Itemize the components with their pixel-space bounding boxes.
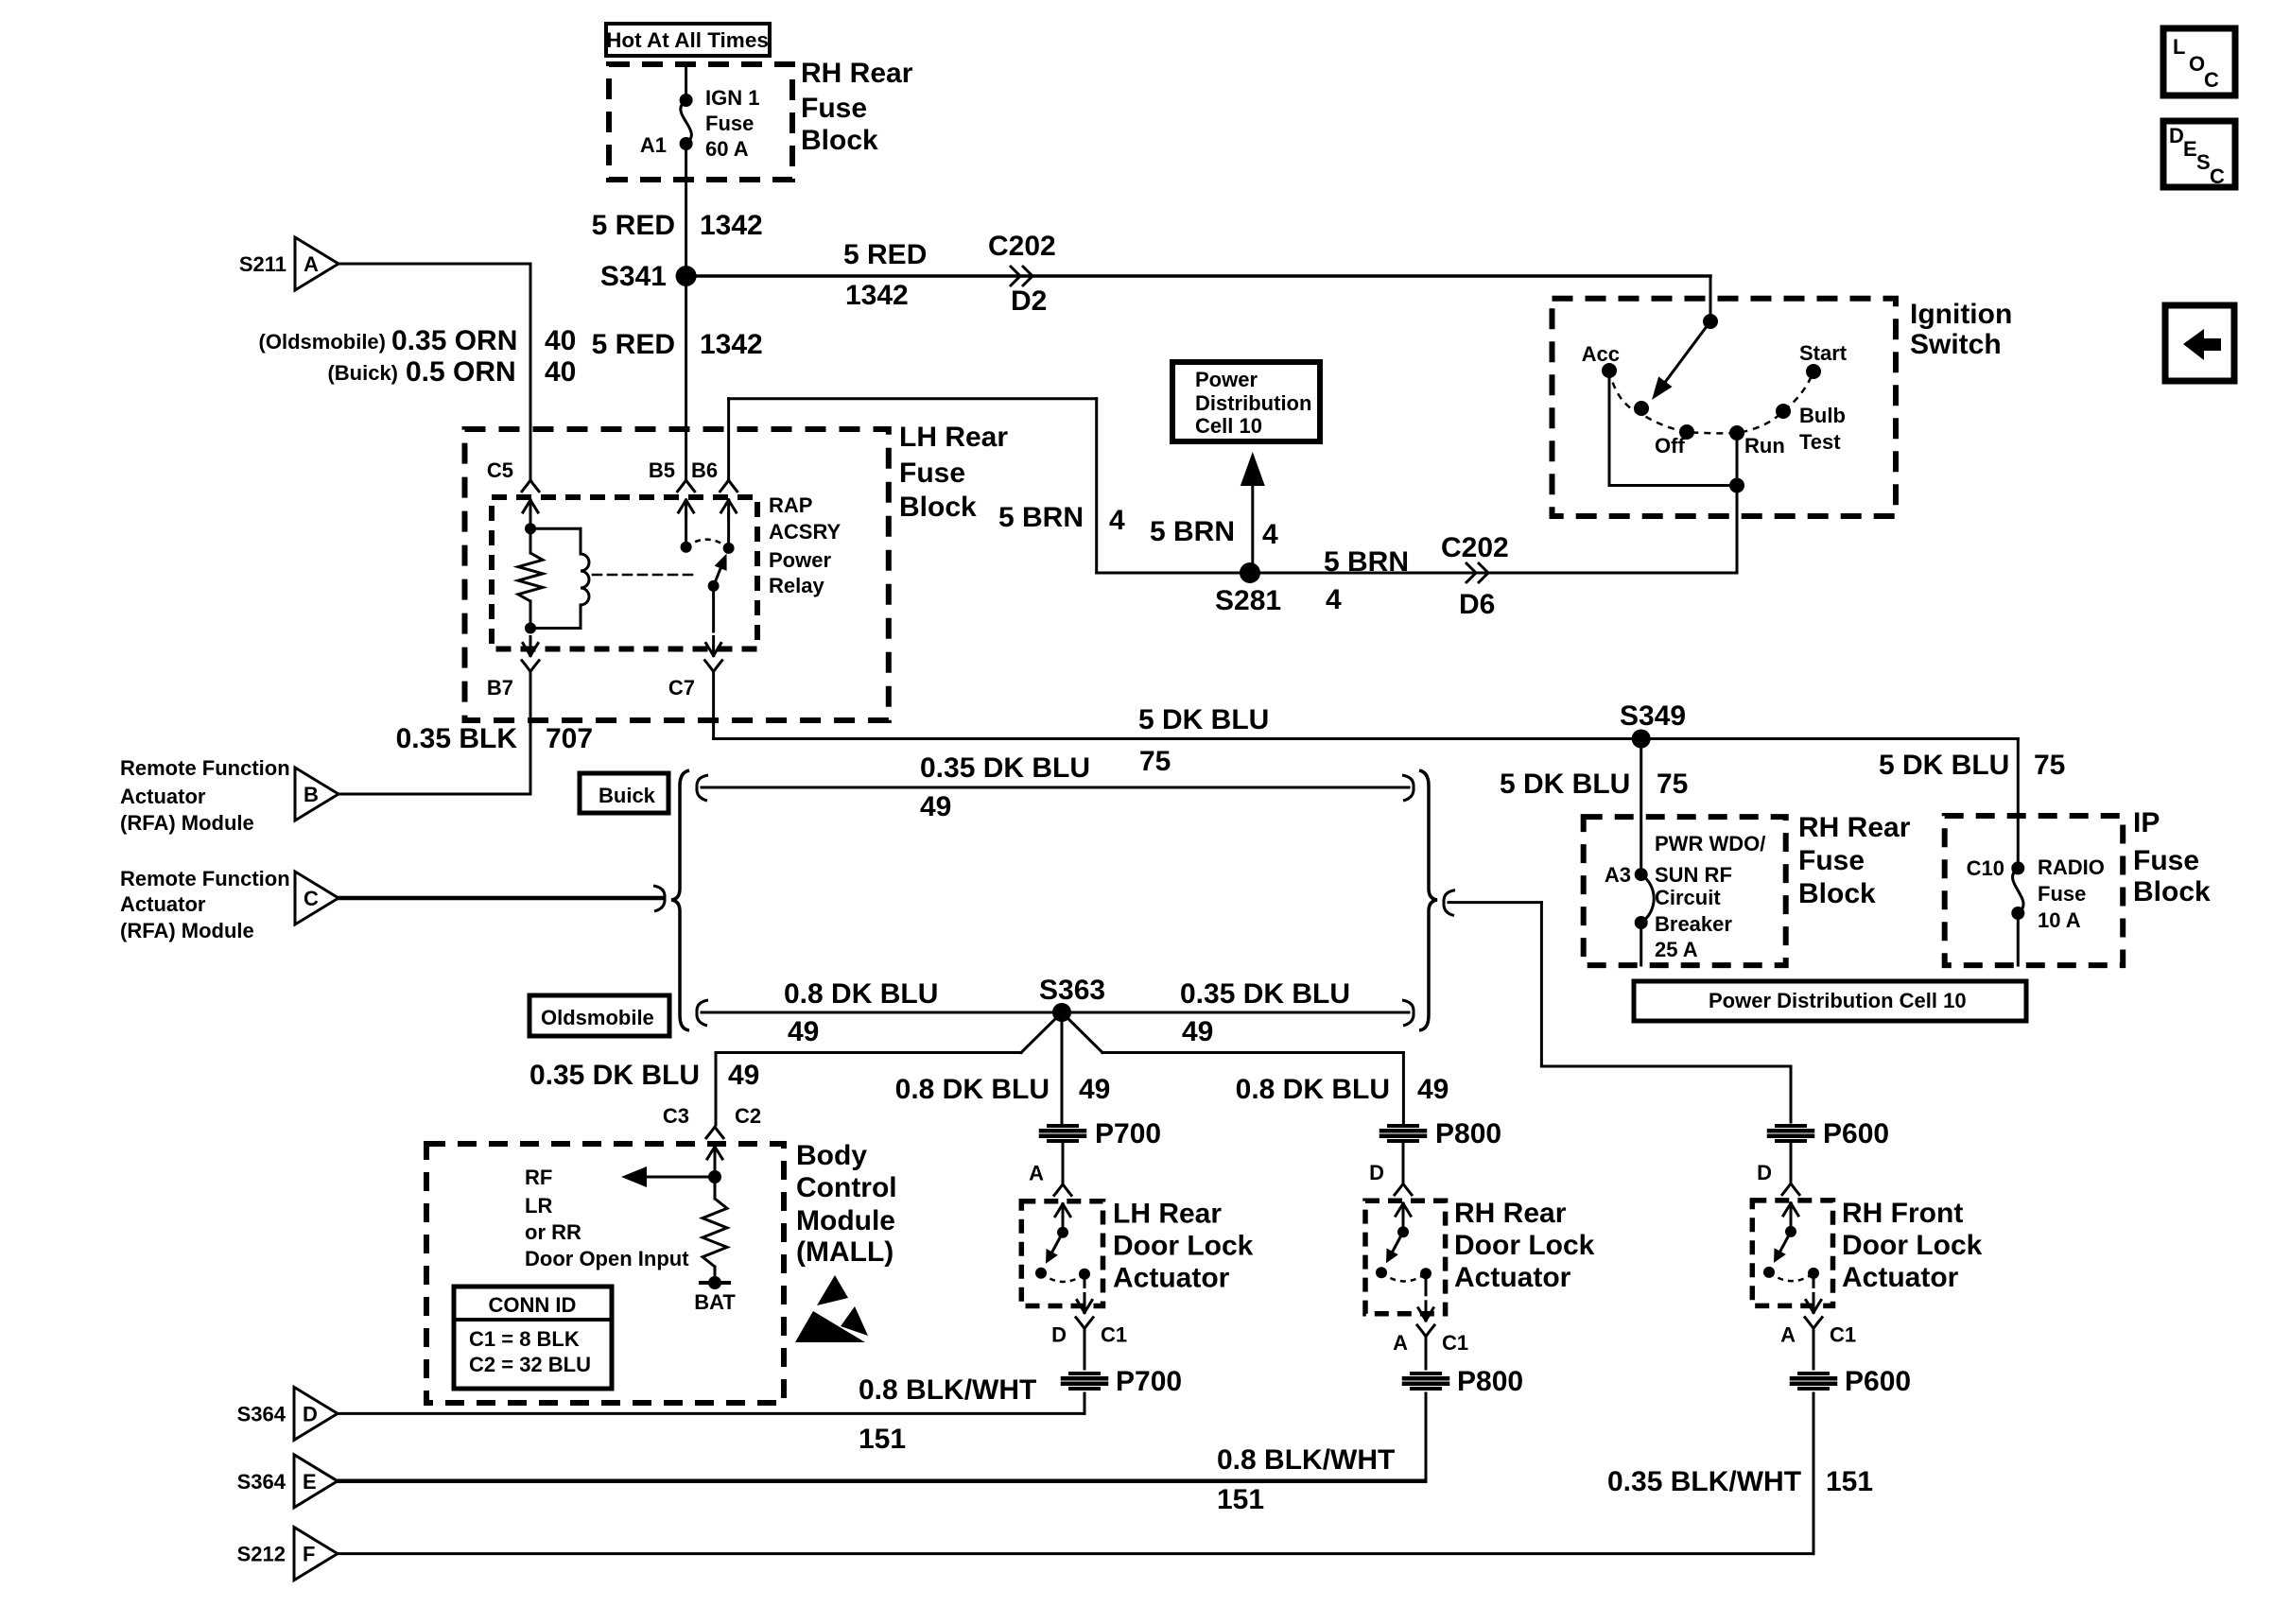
svg-text:C: C bbox=[304, 887, 319, 910]
svg-text:S281: S281 bbox=[1215, 585, 1281, 616]
svg-text:IGN 1: IGN 1 bbox=[705, 86, 759, 110]
svg-text:B6: B6 bbox=[691, 458, 718, 482]
svg-text:Block: Block bbox=[801, 125, 878, 156]
svg-text:1342: 1342 bbox=[700, 329, 763, 360]
svg-text:D: D bbox=[1757, 1161, 1772, 1184]
svg-text:D2: D2 bbox=[1011, 285, 1047, 317]
svg-text:Block: Block bbox=[2133, 876, 2211, 907]
svg-text:10 A: 10 A bbox=[2038, 908, 2081, 932]
svg-text:P700: P700 bbox=[1116, 1366, 1182, 1397]
svg-text:Module: Module bbox=[796, 1205, 895, 1236]
svg-text:Cell 10: Cell 10 bbox=[1195, 414, 1262, 438]
svg-text:S364: S364 bbox=[237, 1402, 286, 1425]
svg-text:0.35 DK BLU: 0.35 DK BLU bbox=[920, 752, 1090, 784]
svg-text:RADIO: RADIO bbox=[2038, 855, 2105, 879]
svg-text:Test: Test bbox=[1799, 430, 1841, 454]
svg-text:Start: Start bbox=[1799, 341, 1848, 365]
svg-text:S211: S211 bbox=[239, 252, 286, 276]
svg-text:151: 151 bbox=[1217, 1484, 1264, 1515]
svg-text:0.8 DK BLU: 0.8 DK BLU bbox=[895, 1074, 1050, 1105]
svg-text:S: S bbox=[2196, 150, 2211, 174]
svg-text:5 BRN: 5 BRN bbox=[998, 502, 1084, 533]
svg-text:49: 49 bbox=[728, 1060, 759, 1091]
svg-text:E: E bbox=[303, 1470, 317, 1494]
svg-text:B7: B7 bbox=[487, 676, 513, 700]
svg-text:40: 40 bbox=[545, 325, 576, 356]
svg-text:0.35 BLK/WHT: 0.35 BLK/WHT bbox=[1607, 1466, 1801, 1497]
svg-text:Door Lock: Door Lock bbox=[1454, 1230, 1595, 1261]
svg-text:L: L bbox=[2173, 35, 2185, 59]
svg-text:Off: Off bbox=[1655, 434, 1685, 458]
svg-text:49: 49 bbox=[1417, 1074, 1449, 1105]
svg-text:Control: Control bbox=[796, 1172, 897, 1203]
svg-text:5 RED: 5 RED bbox=[843, 239, 927, 270]
svg-text:0.35 DK BLU: 0.35 DK BLU bbox=[1180, 978, 1350, 1010]
svg-text:707: 707 bbox=[546, 723, 593, 754]
svg-text:A: A bbox=[1780, 1322, 1796, 1346]
svg-text:Hot At All Times: Hot At All Times bbox=[606, 28, 769, 52]
svg-text:60 A: 60 A bbox=[705, 137, 749, 161]
svg-text:Door Open Input: Door Open Input bbox=[525, 1247, 689, 1270]
svg-text:75: 75 bbox=[1657, 769, 1688, 800]
svg-text:Power: Power bbox=[769, 548, 831, 572]
svg-text:Body: Body bbox=[796, 1140, 867, 1171]
svg-text:D: D bbox=[303, 1402, 318, 1425]
svg-text:0.5 ORN: 0.5 ORN bbox=[406, 356, 516, 388]
svg-text:C: C bbox=[2204, 68, 2219, 92]
svg-text:C1 = 8 BLK: C1 = 8 BLK bbox=[469, 1327, 580, 1351]
svg-text:RH Rear: RH Rear bbox=[1454, 1198, 1567, 1229]
svg-text:C3: C3 bbox=[663, 1104, 689, 1128]
svg-text:C2 = 32 BLU: C2 = 32 BLU bbox=[469, 1353, 591, 1376]
svg-text:Fuse: Fuse bbox=[2133, 845, 2199, 876]
svg-text:Breaker: Breaker bbox=[1655, 912, 1732, 936]
svg-text:5 RED: 5 RED bbox=[592, 329, 675, 360]
svg-text:C1: C1 bbox=[1442, 1331, 1468, 1355]
svg-text:Oldsmobile: Oldsmobile bbox=[541, 1006, 654, 1029]
svg-text:D6: D6 bbox=[1459, 589, 1495, 620]
svg-text:Power: Power bbox=[1195, 368, 1258, 391]
svg-text:RH Rear: RH Rear bbox=[801, 58, 913, 89]
svg-text:5 DK BLU: 5 DK BLU bbox=[1138, 704, 1269, 735]
svg-text:0.8 DK BLU: 0.8 DK BLU bbox=[1236, 1074, 1390, 1105]
svg-text:LH Rear: LH Rear bbox=[1113, 1199, 1222, 1230]
svg-text:Remote Function: Remote Function bbox=[120, 756, 290, 780]
svg-text:IP: IP bbox=[2133, 807, 2160, 838]
svg-text:P600: P600 bbox=[1845, 1366, 1911, 1397]
svg-text:Actuator: Actuator bbox=[120, 785, 206, 808]
svg-text:B5: B5 bbox=[649, 458, 675, 482]
svg-text:P800: P800 bbox=[1457, 1366, 1523, 1397]
svg-text:A: A bbox=[304, 252, 319, 276]
svg-text:SUN RF: SUN RF bbox=[1655, 863, 1732, 887]
svg-text:LR: LR bbox=[525, 1194, 552, 1218]
svg-text:(Oldsmobile): (Oldsmobile) bbox=[259, 330, 386, 354]
svg-text:A: A bbox=[1393, 1331, 1408, 1355]
svg-text:75: 75 bbox=[1139, 746, 1171, 777]
svg-text:Fuse: Fuse bbox=[1798, 845, 1865, 876]
svg-text:(MALL): (MALL) bbox=[796, 1236, 894, 1268]
svg-text:P800: P800 bbox=[1435, 1118, 1501, 1149]
svg-text:LH Rear: LH Rear bbox=[899, 422, 1008, 453]
svg-text:B: B bbox=[304, 783, 319, 806]
svg-text:A1: A1 bbox=[640, 133, 667, 157]
svg-text:Power Distribution Cell 10: Power Distribution Cell 10 bbox=[1709, 989, 1967, 1012]
svg-text:5 DK BLU: 5 DK BLU bbox=[1879, 750, 2009, 781]
svg-text:151: 151 bbox=[859, 1424, 906, 1455]
svg-text:0.35 ORN: 0.35 ORN bbox=[391, 325, 517, 356]
svg-text:Fuse: Fuse bbox=[2038, 882, 2086, 906]
svg-text:C2: C2 bbox=[735, 1104, 761, 1128]
svg-text:BAT: BAT bbox=[694, 1290, 736, 1314]
svg-text:0.8 DK BLU: 0.8 DK BLU bbox=[784, 978, 938, 1010]
svg-text:P700: P700 bbox=[1095, 1118, 1161, 1149]
svg-text:CONN ID: CONN ID bbox=[489, 1293, 577, 1317]
svg-text:Door Lock: Door Lock bbox=[1842, 1230, 1983, 1261]
svg-text:O: O bbox=[2189, 52, 2205, 76]
svg-text:C5: C5 bbox=[487, 458, 513, 482]
svg-text:C7: C7 bbox=[668, 676, 695, 700]
svg-text:4: 4 bbox=[1326, 584, 1342, 615]
svg-text:0.35 DK BLU: 0.35 DK BLU bbox=[529, 1060, 700, 1091]
svg-text:C1: C1 bbox=[1101, 1323, 1127, 1347]
svg-text:40: 40 bbox=[545, 356, 576, 388]
svg-text:Relay: Relay bbox=[769, 574, 824, 597]
svg-text:or RR: or RR bbox=[525, 1220, 581, 1244]
svg-text:C202: C202 bbox=[1441, 532, 1509, 563]
svg-text:151: 151 bbox=[1826, 1466, 1873, 1497]
svg-text:1342: 1342 bbox=[845, 280, 909, 311]
svg-text:C202: C202 bbox=[988, 231, 1056, 262]
svg-text:75: 75 bbox=[2034, 750, 2065, 781]
svg-text:ACSRY: ACSRY bbox=[769, 520, 842, 544]
svg-text:5 RED: 5 RED bbox=[592, 210, 675, 241]
svg-text:Bulb: Bulb bbox=[1799, 404, 1846, 427]
svg-text:Distribution: Distribution bbox=[1195, 391, 1311, 415]
svg-text:Fuse: Fuse bbox=[801, 93, 867, 124]
svg-text:4: 4 bbox=[1262, 519, 1278, 550]
svg-text:Block: Block bbox=[1798, 878, 1876, 909]
svg-text:25 A: 25 A bbox=[1655, 938, 1698, 961]
svg-text:Block: Block bbox=[899, 492, 977, 523]
svg-text:A3: A3 bbox=[1605, 863, 1631, 887]
svg-text:0.8 BLK/WHT: 0.8 BLK/WHT bbox=[1217, 1444, 1395, 1476]
svg-text:Circuit: Circuit bbox=[1655, 886, 1721, 909]
svg-text:49: 49 bbox=[788, 1016, 819, 1047]
svg-text:E: E bbox=[2183, 137, 2197, 161]
svg-text:49: 49 bbox=[920, 791, 951, 822]
svg-text:S364: S364 bbox=[237, 1470, 286, 1494]
svg-text:Ignition: Ignition bbox=[1910, 299, 2012, 330]
svg-text:RAP: RAP bbox=[769, 493, 812, 517]
svg-text:D: D bbox=[1369, 1161, 1384, 1184]
svg-text:Switch: Switch bbox=[1910, 329, 2002, 360]
svg-text:C1: C1 bbox=[1830, 1322, 1856, 1346]
svg-text:Buick: Buick bbox=[599, 784, 656, 807]
svg-text:Actuator: Actuator bbox=[1454, 1262, 1571, 1293]
svg-text:0.8 BLK/WHT: 0.8 BLK/WHT bbox=[859, 1374, 1036, 1406]
svg-text:S349: S349 bbox=[1620, 700, 1686, 732]
svg-text:5 DK BLU: 5 DK BLU bbox=[1500, 769, 1630, 800]
svg-text:5 BRN: 5 BRN bbox=[1150, 516, 1235, 547]
svg-text:P600: P600 bbox=[1823, 1118, 1889, 1149]
svg-text:A: A bbox=[1029, 1162, 1044, 1185]
svg-text:RF: RF bbox=[525, 1166, 552, 1189]
svg-text:1342: 1342 bbox=[700, 210, 763, 241]
svg-text:Acc: Acc bbox=[1582, 342, 1620, 366]
svg-text:(Buick): (Buick) bbox=[327, 361, 398, 385]
svg-text:PWR WDO/: PWR WDO/ bbox=[1655, 832, 1765, 855]
svg-text:4: 4 bbox=[1109, 505, 1125, 536]
svg-text:RH Rear: RH Rear bbox=[1798, 812, 1911, 843]
svg-text:Remote Function: Remote Function bbox=[120, 867, 290, 890]
svg-text:S212: S212 bbox=[237, 1543, 286, 1566]
svg-text:Actuator: Actuator bbox=[120, 892, 206, 916]
svg-text:C10: C10 bbox=[1967, 856, 2004, 880]
svg-text:D: D bbox=[1051, 1323, 1067, 1347]
svg-text:Actuator: Actuator bbox=[1113, 1263, 1230, 1294]
svg-text:49: 49 bbox=[1182, 1016, 1213, 1047]
svg-text:S363: S363 bbox=[1039, 975, 1105, 1006]
svg-text:0.35 BLK: 0.35 BLK bbox=[396, 723, 518, 754]
svg-text:RH Front: RH Front bbox=[1842, 1198, 1963, 1229]
svg-text:Fuse: Fuse bbox=[705, 112, 754, 135]
svg-text:Door Lock: Door Lock bbox=[1113, 1231, 1254, 1262]
svg-text:Fuse: Fuse bbox=[899, 458, 965, 489]
svg-text:Run: Run bbox=[1744, 434, 1785, 458]
svg-text:C: C bbox=[2210, 164, 2225, 188]
svg-text:S341: S341 bbox=[600, 261, 667, 292]
svg-text:Actuator: Actuator bbox=[1842, 1262, 1959, 1293]
svg-text:(RFA) Module: (RFA) Module bbox=[120, 811, 254, 835]
svg-text:F: F bbox=[303, 1543, 315, 1566]
svg-text:49: 49 bbox=[1079, 1074, 1110, 1105]
svg-text:D: D bbox=[2169, 124, 2184, 147]
svg-text:(RFA) Module: (RFA) Module bbox=[120, 919, 254, 942]
